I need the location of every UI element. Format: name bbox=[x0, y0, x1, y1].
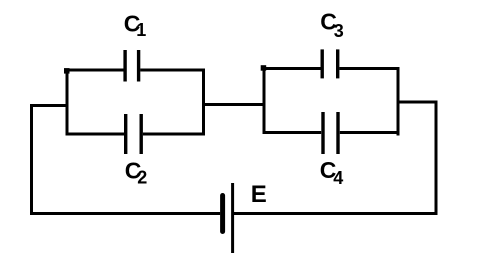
battery E negative plate (short thick) bbox=[220, 196, 225, 232]
wire: right stub from right group to outer loop bbox=[397, 101, 438, 104]
capacitor C4 bbox=[323, 112, 338, 154]
wire: left group bottom edge, left segment bbox=[66, 133, 125, 136]
label C3 bbox=[320, 9, 344, 42]
wire: left stub from outer loop to left group bbox=[30, 104, 69, 107]
junction dot: left group top-left corner bbox=[64, 68, 70, 74]
wire: right group top edge, left segment bbox=[263, 67, 321, 70]
wire: left group bottom edge, right segment bbox=[143, 133, 205, 136]
svg-text:2: 2 bbox=[137, 167, 147, 187]
wire: left group top edge, left segment bbox=[66, 69, 124, 72]
label C2 bbox=[125, 158, 148, 188]
svg-text:4: 4 bbox=[333, 168, 343, 188]
wire: right group bottom edge, right segment bbox=[340, 131, 400, 134]
wire: left outer vertical bbox=[30, 104, 33, 215]
label C1 bbox=[124, 11, 147, 41]
wire: left group top edge, right segment bbox=[140, 69, 205, 72]
label C4 bbox=[320, 157, 344, 188]
wire: middle connecting segment between groups bbox=[202, 103, 266, 106]
battery E positive plate (long thin) bbox=[231, 183, 234, 253]
wire: right group bottom edge, left segment bbox=[263, 131, 322, 134]
wire: left group right edge bbox=[202, 69, 205, 136]
junction dot: right group top-left corner bbox=[261, 65, 267, 71]
wire: right outer vertical bbox=[435, 101, 438, 216]
svg-text:1: 1 bbox=[136, 20, 146, 40]
wire: bottom, right of battery bbox=[234, 212, 438, 215]
svg-text:E: E bbox=[251, 181, 267, 208]
capacitor C3 bbox=[322, 49, 338, 78]
wire: right group top edge, right segment bbox=[339, 67, 399, 70]
wire: right group right edge bbox=[397, 67, 400, 136]
svg-text:3: 3 bbox=[334, 21, 344, 41]
wire: bottom, left of battery bbox=[30, 212, 220, 215]
capacitor C2 bbox=[126, 114, 142, 154]
capacitor C1 bbox=[125, 50, 139, 82]
wire: right group left edge bbox=[263, 67, 266, 134]
wire: left group left edge bbox=[66, 69, 69, 136]
